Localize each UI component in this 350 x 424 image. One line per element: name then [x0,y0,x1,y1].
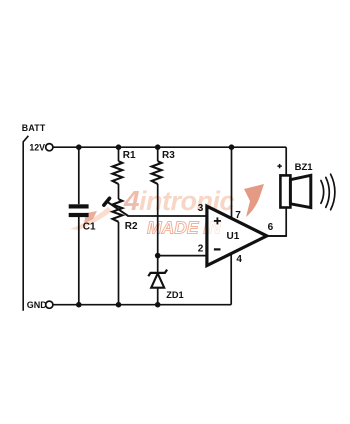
svg-text:3: 3 [198,203,204,214]
zener diode ZD1 [148,270,167,288]
node 12V terminal [46,144,53,151]
wire R2 bottom branch [118,222,120,305]
wire pin3 input [127,215,207,217]
wire top rail 12V [53,146,286,148]
op-amp plus input sign [214,217,221,224]
svg-text:R3: R3 [162,150,175,161]
wire C1 top branch [78,147,80,204]
wire R1 top stub [118,147,120,161]
watermark [70,184,264,238]
wire pin7 supply [231,147,233,218]
svg-text:7: 7 [235,210,241,221]
junction top R3 [155,144,161,150]
wire right drop to speaker [285,147,287,175]
wire BATT leader bracket [23,136,28,311]
svg-text:6: 6 [268,222,274,233]
svg-text:GND: GND [27,300,48,310]
svg-text:ZD1: ZD1 [166,290,183,300]
svg-text:4: 4 [123,185,140,216]
buzzer plus polarity sign [277,164,281,168]
resistor R3 [152,161,162,184]
wire pin6 output [267,235,286,237]
junction bottom C1 [76,302,82,308]
junction bottom ZD1 [155,302,161,308]
op-amp minus input sign [214,248,221,250]
svg-text:U1: U1 [227,231,240,242]
wire C1 bottom branch [78,217,80,305]
wire pin2 input [158,255,207,257]
svg-text:4: 4 [236,254,242,265]
wire R3 down to node [157,184,159,256]
capacitor C1 [69,204,89,217]
svg-text:2: 2 [198,244,204,255]
junction top C1 [76,144,82,150]
junction bottom R2 [116,302,122,308]
sound waves [321,174,335,210]
svg-text:12V: 12V [29,142,45,152]
junction node pin2 ZD1 [155,253,161,259]
wire ZD1 to bottom rail [157,288,159,305]
resistor R1 [113,161,123,184]
junction top R1 [116,144,122,150]
red accent of watermark [244,184,264,217]
op-amp U1 [207,206,267,265]
svg-text:BATT: BATT [22,123,46,133]
wire pin4 supply [230,254,232,305]
svg-text:C1: C1 [83,221,96,232]
wire bottom rail GND [53,304,231,306]
svg-text:R1: R1 [123,150,136,161]
wire R1 to R2 [118,184,120,199]
node GND terminal [46,301,53,308]
potentiometer R2 [104,198,128,222]
junction top pin7 [229,144,235,150]
buzzer BZ1 [280,175,310,207]
svg-text:BZ1: BZ1 [295,162,314,173]
svg-text:R2: R2 [125,221,138,232]
wire node to ZD1 [157,256,159,273]
wire speaker to pin6 [266,207,286,236]
wire R3 top stub [157,147,159,161]
